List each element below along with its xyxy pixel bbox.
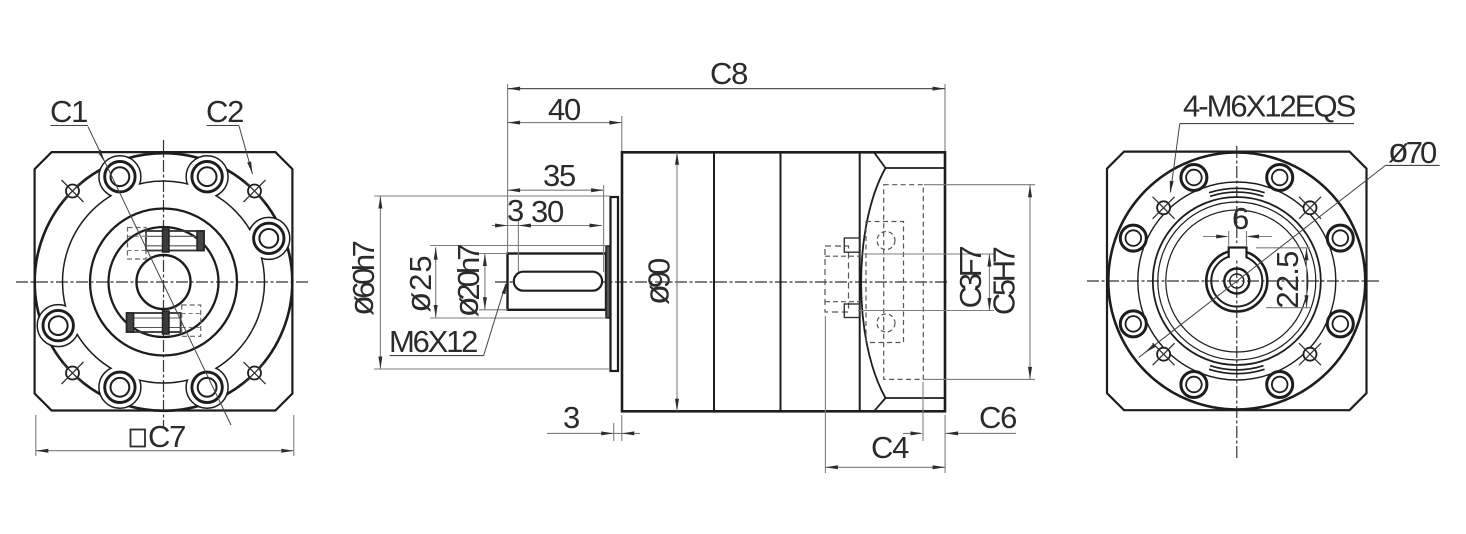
svg-text:C2: C2 xyxy=(206,94,243,129)
svg-text:ø20h7: ø20h7 xyxy=(448,245,486,318)
svg-text:40: 40 xyxy=(548,92,581,127)
svg-text:ø60h7: ø60h7 xyxy=(343,241,381,316)
svg-text:3: 3 xyxy=(563,400,579,435)
svg-text:22.5: 22.5 xyxy=(1270,251,1305,308)
svg-text:C1: C1 xyxy=(50,94,87,129)
svg-text:35: 35 xyxy=(543,158,575,193)
svg-text:C8: C8 xyxy=(710,56,747,91)
svg-text:C7: C7 xyxy=(148,419,185,454)
svg-text:M6X12: M6X12 xyxy=(389,324,477,359)
svg-text:ø90: ø90 xyxy=(639,258,677,305)
svg-text:6: 6 xyxy=(1232,201,1248,236)
svg-text:ø25: ø25 xyxy=(400,254,438,312)
svg-text:C3F7: C3F7 xyxy=(953,247,988,309)
svg-text:C4: C4 xyxy=(871,430,909,465)
svg-text:C5H7: C5H7 xyxy=(987,247,1022,315)
svg-text:4-M6X12EQS: 4-M6X12EQS xyxy=(1183,89,1356,124)
svg-text:C6: C6 xyxy=(979,400,1016,435)
svg-text:3: 3 xyxy=(507,193,523,228)
svg-text:30: 30 xyxy=(531,194,564,229)
svg-text:ø70: ø70 xyxy=(1388,132,1437,170)
